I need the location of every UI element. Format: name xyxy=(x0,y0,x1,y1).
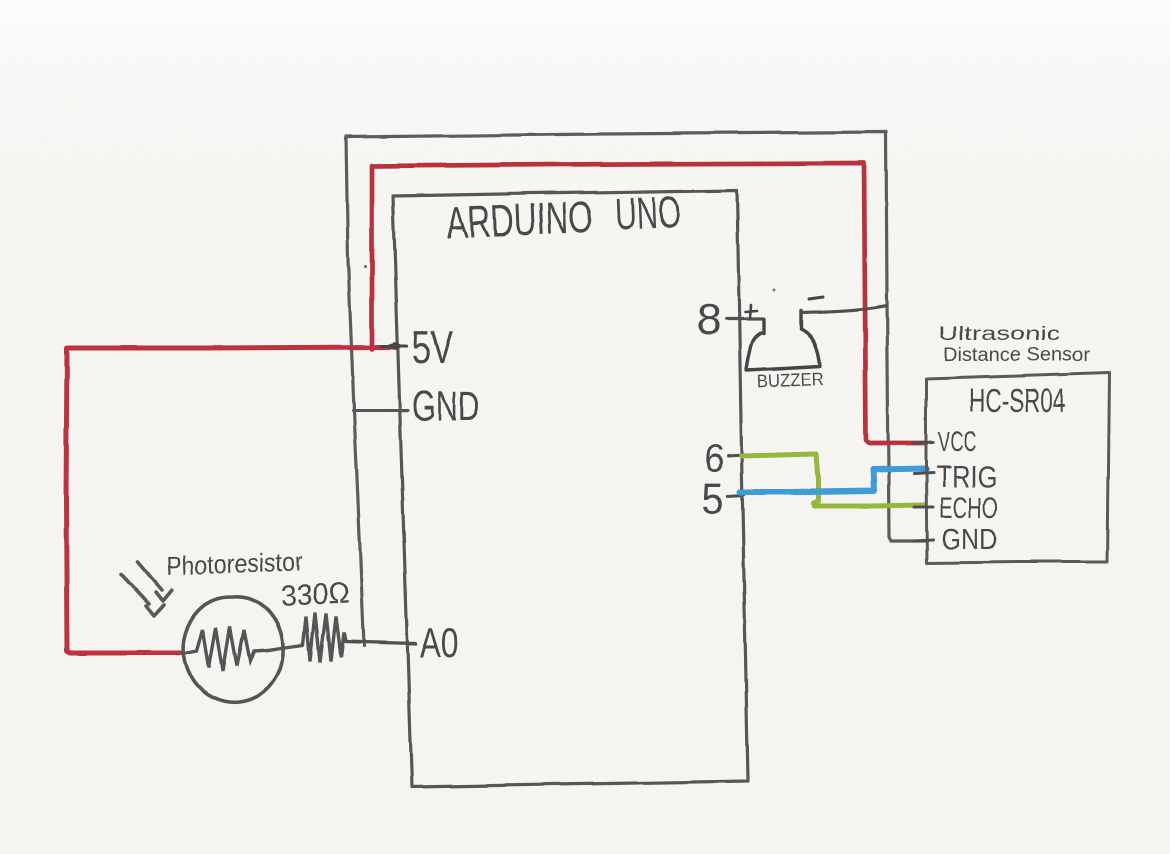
pin tick GND (sensor) xyxy=(914,540,933,541)
wire: red 5V to photoresistor (left loop) xyxy=(66,347,392,653)
svg-text:Photoresistor: Photoresistor xyxy=(166,546,303,581)
photoresistor circle xyxy=(184,597,284,702)
svg-text:5: 5 xyxy=(702,473,724,524)
svg-text:Distance Sensor: Distance Sensor xyxy=(943,345,1091,366)
svg-text:330Ω: 330Ω xyxy=(280,576,351,613)
pin 8 tick xyxy=(726,317,763,320)
label: ARDUINO UNO xyxy=(445,186,681,248)
wire: GND pin tick (outer loop to Arduino GND) xyxy=(353,409,408,412)
wire: photoresistor node to A0 xyxy=(344,642,416,644)
svg-text:GND: GND xyxy=(941,524,998,556)
svg-text:A0: A0 xyxy=(420,619,459,666)
light arrow 1 xyxy=(138,562,172,601)
wire: buzzer minus to ground loop xyxy=(801,306,887,313)
svg-text:ECHO: ECHO xyxy=(939,492,998,525)
wire: ground net outer loop (left/top/right pencil rectangle to HC-SR04 GND) xyxy=(346,132,927,646)
svg-text:5V: 5V xyxy=(412,322,453,373)
svg-text:GND: GND xyxy=(412,382,480,429)
wire: blue pin5 to TRIG xyxy=(740,469,926,492)
Arduino UNO box xyxy=(393,190,748,787)
svg-text:VCC: VCC xyxy=(938,426,977,457)
svg-text:ARDUINO: ARDUINO xyxy=(445,191,594,248)
HC-SR04 box xyxy=(926,373,1109,563)
pin tick ECHO xyxy=(914,506,933,509)
svg-text:BUZZER: BUZZER xyxy=(756,370,824,393)
buzzer plus sign xyxy=(745,305,757,318)
wire: red 5V top loop (5V pin up and over to HC-SR04 VCC) xyxy=(372,163,926,443)
pin 5V arrow xyxy=(381,345,407,348)
wire: photoresistor to resistor xyxy=(281,645,303,648)
pin 5 tick xyxy=(728,495,744,496)
resistor 330 ohm zigzag xyxy=(303,613,346,662)
light arrow 2 xyxy=(121,574,164,616)
svg-text:TRIG: TRIG xyxy=(936,459,997,494)
pin 6 tick xyxy=(728,455,744,456)
buzzer + terminal lead xyxy=(762,319,765,333)
photoresistor zigzag xyxy=(187,627,281,671)
svg-text:HC-SR04: HC-SR04 xyxy=(969,382,1066,419)
speck above buzzer xyxy=(773,289,776,292)
buzzer body xyxy=(746,329,820,370)
wire: green pin6 to ECHO xyxy=(741,454,925,506)
speck near outer left xyxy=(363,265,366,268)
pin tick VCC xyxy=(914,442,933,443)
svg-text:UNO: UNO xyxy=(614,186,681,239)
buzzer - terminal lead xyxy=(799,311,802,329)
pin tick TRIG xyxy=(914,473,933,474)
svg-text:Ultrasonic: Ultrasonic xyxy=(938,324,1060,345)
buzzer minus sign xyxy=(809,297,823,299)
svg-text:8: 8 xyxy=(696,296,721,344)
